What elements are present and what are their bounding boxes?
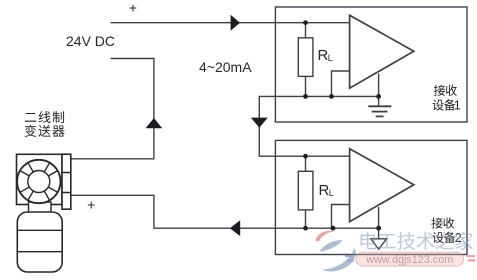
svg-text:1: 1	[454, 99, 461, 113]
svg-text:L: L	[329, 188, 334, 198]
svg-text:24V DC: 24V DC	[66, 33, 115, 49]
svg-text:www.dgjs123.com: www.dgjs123.com	[365, 254, 453, 266]
svg-text:+: +	[87, 197, 95, 213]
svg-text:+: +	[129, 0, 137, 16]
svg-text:4~20mA: 4~20mA	[199, 59, 252, 75]
svg-text:L: L	[328, 53, 333, 63]
